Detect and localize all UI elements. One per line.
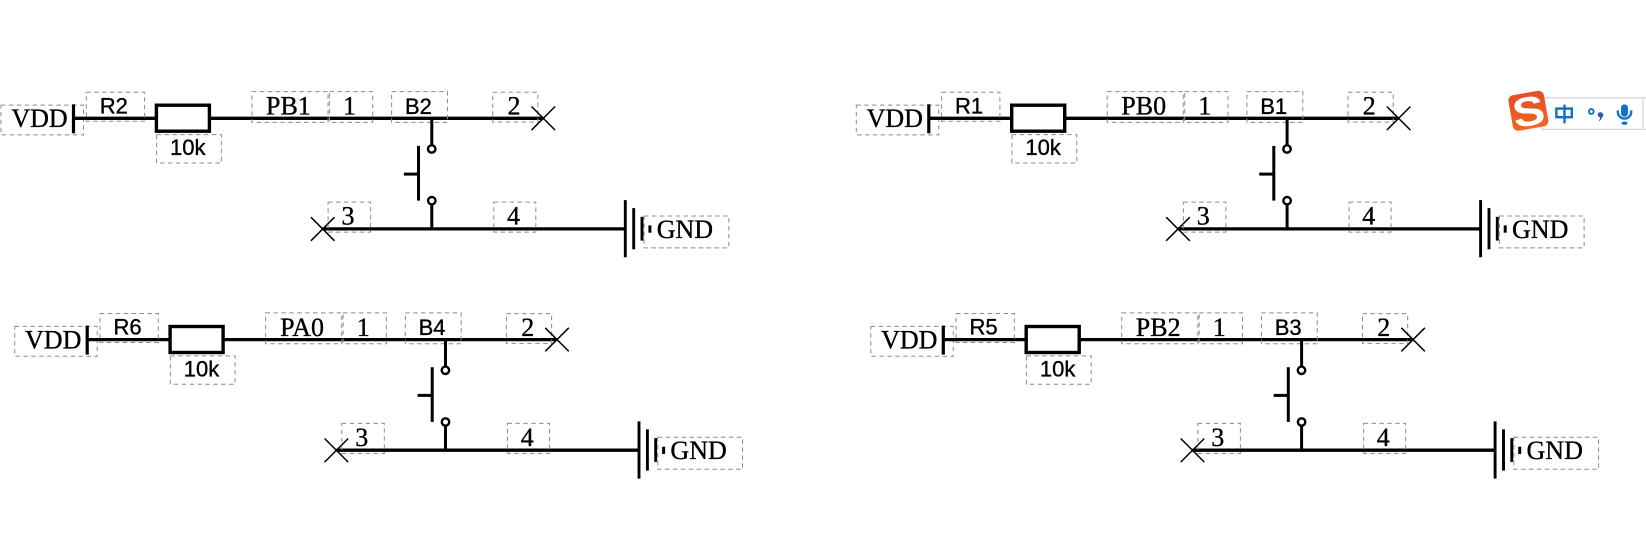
ground symbol — [1495, 421, 1520, 478]
svg-text:B4: B4 — [419, 315, 446, 340]
svg-text:VDD: VDD — [881, 326, 937, 355]
no-connect cross at pin 3 — [1166, 217, 1190, 241]
resistor R2 — [156, 105, 209, 131]
svg-text:3: 3 — [1197, 202, 1210, 231]
resistor R6 designator label — [100, 314, 158, 343]
pin number 2 of B4 — [506, 313, 551, 344]
wire R5 to pin 2 no-connect — [1079, 338, 1413, 341]
svg-text:1: 1 — [1213, 313, 1226, 342]
resistor R1 value 10k — [1012, 135, 1077, 163]
net label PB2 — [1122, 313, 1198, 344]
svg-text:4: 4 — [507, 202, 520, 231]
svg-text:10k: 10k — [170, 135, 206, 160]
resistor R2 designator label — [86, 92, 144, 121]
pin number 4 of B3 — [1364, 423, 1406, 453]
no-connect cross at pin 2 — [1401, 328, 1425, 352]
resistor R1 designator label — [942, 92, 1000, 121]
pin number 4 of B1 — [1349, 202, 1391, 232]
pin number 3 of B4 — [342, 423, 385, 453]
resistor R1 — [1012, 105, 1065, 131]
svg-text:2: 2 — [1377, 313, 1390, 342]
svg-text:2: 2 — [508, 92, 521, 121]
ground net label GND — [1514, 436, 1599, 469]
IME microphone icon — [1617, 104, 1633, 125]
pin number 4 of B2 — [494, 202, 536, 232]
svg-text:PB0: PB0 — [1121, 92, 1166, 121]
svg-text:10k: 10k — [184, 357, 220, 382]
no-connect cross at pin 3 — [325, 439, 349, 463]
ground net label GND — [1499, 215, 1584, 248]
power VDD port (B2 circuit) — [1, 104, 84, 135]
svg-text:2: 2 — [1363, 92, 1376, 121]
svg-text:R6: R6 — [113, 315, 141, 340]
pin number 2 of B3 — [1363, 313, 1408, 344]
wire pin 3 no-connect to ground — [336, 449, 639, 452]
svg-text:4: 4 — [1377, 423, 1390, 452]
push button B4 designator label — [405, 313, 461, 344]
pin number 2 of B1 — [1348, 92, 1393, 123]
push button B2 designator label — [392, 92, 448, 123]
no-connect cross at pin 2 — [545, 328, 569, 352]
svg-text:PA0: PA0 — [280, 313, 324, 342]
net label PB1 — [252, 92, 328, 123]
resistor R6 — [170, 327, 223, 353]
svg-text:GND: GND — [657, 215, 713, 244]
ground symbol — [639, 421, 664, 478]
svg-text:GND: GND — [1512, 215, 1568, 244]
push button B3 designator label — [1261, 313, 1317, 344]
svg-text:GND: GND — [1527, 436, 1583, 465]
power VDD port (B4 circuit) — [15, 326, 98, 357]
wire pin 3 no-connect to ground — [1178, 227, 1481, 230]
push button B4 symbol — [418, 338, 450, 451]
pin number 1 of B1 — [1185, 92, 1228, 123]
svg-text:2: 2 — [521, 313, 534, 342]
power VDD port (B3 circuit) — [871, 326, 954, 357]
svg-text:R1: R1 — [955, 93, 983, 118]
wire R6 to pin 2 no-connect — [223, 338, 557, 341]
IME punctuation icon (degree + comma) — [1589, 109, 1603, 122]
svg-text:3: 3 — [355, 423, 368, 452]
IME mode icon: Chinese glyph ZHONG — [1556, 105, 1571, 124]
wire R2 to pin 2 no-connect — [209, 117, 543, 120]
ground net label GND — [644, 215, 729, 248]
resistor R6 value 10k — [170, 356, 235, 384]
ground symbol — [1481, 200, 1506, 257]
svg-text:4: 4 — [521, 423, 534, 452]
push button B1 symbol — [1259, 117, 1291, 230]
pin number 4 of B4 — [508, 423, 550, 453]
push button B2 symbol — [404, 117, 436, 230]
svg-text:VDD: VDD — [867, 104, 923, 133]
resistor R5 value 10k — [1026, 356, 1091, 384]
no-connect cross at pin 2 — [532, 107, 556, 131]
pin number 1 of B2 — [329, 92, 372, 123]
pin number 1 of B4 — [343, 313, 386, 344]
svg-text:VDD: VDD — [25, 326, 81, 355]
no-connect cross at pin 3 — [1181, 439, 1205, 463]
no-connect cross at pin 2 — [1387, 107, 1411, 131]
net label PB0 — [1107, 92, 1183, 123]
pin number 1 of B3 — [1199, 313, 1242, 344]
svg-text:PB1: PB1 — [266, 92, 311, 121]
ground symbol — [625, 200, 650, 257]
resistor R2 value 10k — [157, 135, 222, 163]
pin number 3 of B2 — [328, 202, 371, 232]
svg-text:1: 1 — [357, 313, 370, 342]
wire pin 3 no-connect to ground — [1192, 449, 1495, 452]
svg-text:10k: 10k — [1025, 135, 1061, 160]
svg-text:GND: GND — [670, 436, 726, 465]
wire VDD bar to R6 — [88, 338, 171, 341]
push button B1 designator label — [1247, 92, 1303, 123]
svg-text:1: 1 — [1198, 92, 1211, 121]
svg-text:B1: B1 — [1260, 94, 1287, 119]
Sogou logo tile with white S — [1507, 87, 1550, 138]
resistor R5 designator label — [956, 314, 1014, 343]
pin number 3 of B1 — [1183, 202, 1226, 232]
wire VDD bar to R2 — [74, 117, 157, 120]
no-connect cross at pin 3 — [311, 217, 335, 241]
svg-text:3: 3 — [1211, 423, 1224, 452]
svg-text:10k: 10k — [1040, 357, 1076, 382]
push button B3 symbol — [1274, 338, 1306, 451]
net label PA0 — [266, 313, 342, 344]
svg-text:4: 4 — [1362, 202, 1375, 231]
svg-text:R5: R5 — [970, 315, 998, 340]
svg-text:3: 3 — [342, 202, 355, 231]
svg-text:PB2: PB2 — [1136, 313, 1181, 342]
svg-text:B3: B3 — [1275, 315, 1302, 340]
svg-text:VDD: VDD — [11, 104, 67, 133]
svg-text:B2: B2 — [405, 94, 432, 119]
wire VDD bar to R5 — [944, 338, 1027, 341]
wire VDD bar to R1 — [929, 117, 1012, 120]
svg-text:R2: R2 — [100, 93, 128, 118]
ground net label GND — [658, 436, 743, 469]
IME toolbar bar background — [1542, 98, 1646, 130]
power VDD port (B1 circuit) — [856, 104, 939, 135]
wire pin 3 no-connect to ground — [323, 227, 626, 230]
wire R1 to pin 2 no-connect — [1065, 117, 1399, 120]
pin number 3 of B3 — [1198, 423, 1241, 453]
resistor R5 — [1026, 327, 1079, 353]
svg-text:1: 1 — [343, 92, 356, 121]
pin number 2 of B2 — [493, 92, 538, 123]
